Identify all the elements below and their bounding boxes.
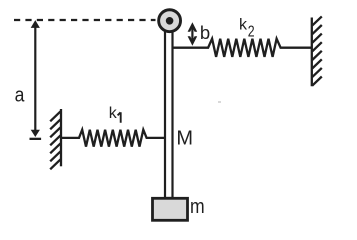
svg-text:2: 2 [248,23,255,41]
pivot dot [166,17,174,25]
svg-text:M: M [176,127,193,149]
dimension arrow a [30,20,42,140]
svg-text:b: b [200,22,210,43]
svg-text:k: k [239,17,248,34]
spring k1 [61,130,164,147]
faint stray mark [218,101,221,103]
svg-text:a: a [15,83,25,105]
rod M [165,26,173,198]
mass m block [153,198,188,220]
left wall [50,109,61,169]
dimension arrow b [188,22,198,46]
spring k2 [174,39,312,57]
right wall [312,16,322,86]
dashed reference line [14,19,156,21]
svg-text:k: k [109,105,118,122]
pivot circle [159,10,181,32]
svg-text:m: m [190,195,205,217]
